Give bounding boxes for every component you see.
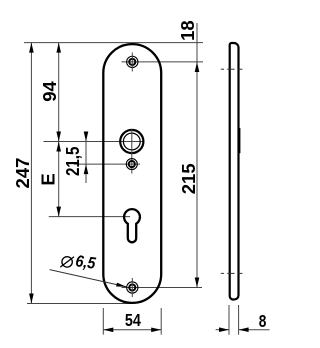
label 8 xyxy=(259,311,267,331)
extension line small hole center xyxy=(74,163,140,165)
side view outline xyxy=(230,43,239,300)
label 215 xyxy=(178,163,199,194)
center line top hole side view xyxy=(221,68,243,70)
dimension line 18 and 215 xyxy=(195,23,200,288)
svg-text:18: 18 xyxy=(177,20,198,41)
svg-text:6,5: 6,5 xyxy=(74,252,97,273)
extension line plate bottom xyxy=(27,303,133,305)
label 247 xyxy=(12,158,33,189)
svg-text:E: E xyxy=(38,173,59,185)
label 54 xyxy=(125,310,141,330)
center line bottom hole side view xyxy=(221,272,243,274)
label diameter 6,5 xyxy=(60,250,97,273)
svg-text:21,5: 21,5 xyxy=(62,147,83,177)
dimension line 247 xyxy=(29,43,34,304)
top screw hole xyxy=(127,53,138,72)
plate outline front view xyxy=(103,44,161,303)
small hole below cylinder xyxy=(126,159,137,170)
bottom screw hole xyxy=(127,278,138,297)
extension line cylinder center xyxy=(44,141,145,143)
svg-text:94: 94 xyxy=(39,81,60,102)
label 21,5 xyxy=(62,147,83,177)
leader line diameter 6,5 xyxy=(50,270,127,287)
keyhole xyxy=(124,209,140,242)
label 18 xyxy=(177,20,198,41)
cylinder hole xyxy=(120,129,143,174)
cylinder boss on side view xyxy=(238,128,241,153)
extension line top hole center right xyxy=(122,61,204,63)
svg-text:215: 215 xyxy=(178,163,199,194)
dimension line 94 and E xyxy=(56,43,61,217)
svg-text:8: 8 xyxy=(259,311,267,331)
extension line bottom hole center right xyxy=(122,287,203,289)
dimension 54 xyxy=(103,308,161,335)
extension line keyhole center xyxy=(49,216,130,218)
svg-text:54: 54 xyxy=(125,310,141,330)
dimension line 21,5 xyxy=(84,132,89,184)
dimension 8 xyxy=(216,305,270,335)
svg-text:247: 247 xyxy=(12,158,33,189)
extension line plate top xyxy=(24,42,203,44)
label 94 xyxy=(39,81,60,102)
label E xyxy=(38,173,59,185)
